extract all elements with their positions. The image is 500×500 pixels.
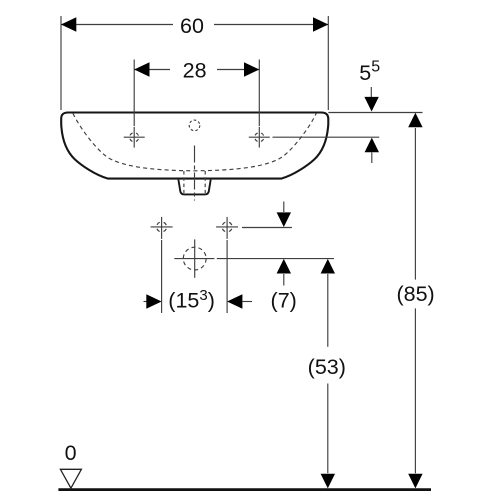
svg-text:55: 55 [359,59,380,86]
left fixing hole symbol [151,217,173,239]
right tap hole symbol [249,127,270,148]
basin inner rim hidden edge (dashed) [73,114,316,171]
right fixing hole symbol [216,217,238,239]
dimension (53) [308,259,346,489]
svg-text:(53): (53) [308,355,346,379]
svg-text:(85): (85) [396,282,434,306]
dimension (7) [271,202,297,313]
drain centerline [194,146,196,201]
svg-text:(7): (7) [271,289,297,313]
washbasin outer outline [61,113,328,179]
svg-text:28: 28 [183,59,207,83]
fixing hole level line [242,227,292,229]
svg-text:60: 60 [180,14,204,38]
drain stub hidden edges (dashed) [184,171,205,193]
top edge extension line to the right [328,112,422,114]
dimension (85) [396,113,434,489]
ground line [58,488,431,491]
tap hole level line extending right [273,136,380,138]
svg-text:(153): (153) [168,287,215,313]
dimension 60 [61,14,328,110]
drain hole bottom view (dashed circle with centerlines) [174,239,214,277]
overflow hole (dashed circle) [189,120,200,131]
dimension (15^3) fixing hole spacing [144,240,253,313]
drain stub outline [178,180,210,195]
left tap hole symbol [124,127,145,148]
drain level line extending right [217,258,334,260]
datum symbol 0 [60,441,81,488]
dimension 28 [134,59,259,127]
dimension 5^5 (tap hole to rim) [359,59,380,163]
svg-text:0: 0 [65,441,77,465]
